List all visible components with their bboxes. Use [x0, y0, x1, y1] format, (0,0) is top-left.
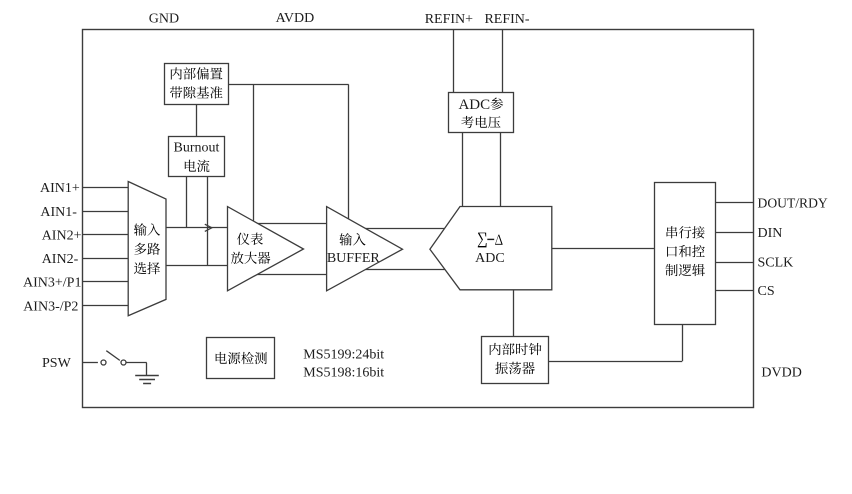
pin label REFIN+	[425, 12, 473, 27]
wire AIN input 4	[83, 258, 129, 260]
pin label GND	[149, 11, 179, 26]
ground	[135, 376, 159, 384]
block power detect 电源检测	[207, 338, 275, 379]
svg-text:REFIN-: REFIN-	[484, 12, 529, 27]
svg-text:AVDD: AVDD	[276, 11, 315, 26]
wire REFIN+ to reference	[453, 30, 455, 92]
wire AIN input 3	[83, 234, 129, 236]
pin label AIN2-	[42, 252, 79, 267]
arrowhead on top rail	[205, 224, 212, 231]
wire AIN input 5	[83, 281, 129, 283]
wire PSW lead-in	[83, 362, 98, 364]
wire AIN input 2	[83, 211, 129, 213]
block serial interface and control logic 串行接口和控制逻辑	[655, 183, 716, 325]
svg-text:PSW: PSW	[42, 356, 72, 371]
wire switch to ground	[126, 363, 147, 376]
svg-text:AIN2+: AIN2+	[42, 228, 82, 243]
op-amp input buffer 输入BUFFER	[327, 207, 403, 291]
wire burnout to bottom rail	[207, 176, 209, 265]
wire mux to amplifier bottom	[166, 265, 230, 267]
wire amplifier to buffer bottom	[250, 274, 330, 276]
pin label PSW	[42, 356, 72, 371]
wire reference to ADC right	[500, 133, 502, 207]
svg-text:REFIN+: REFIN+	[425, 12, 473, 27]
svg-text:SCLK: SCLK	[758, 256, 794, 271]
svg-text:Burnout: Burnout	[174, 141, 220, 156]
wire reference to ADC left	[462, 133, 464, 207]
wire mux to amplifier top	[166, 227, 230, 229]
block input multiplexer 输入多路选择	[128, 182, 166, 316]
wire serial to pin DIN	[716, 232, 754, 234]
svg-text:AIN1+: AIN1+	[40, 181, 80, 196]
block sigma-delta ADC	[430, 207, 552, 290]
wire REFIN- to reference	[502, 30, 504, 92]
wire serial to pin SCLK	[716, 262, 754, 264]
svg-text:MS5199:24bit: MS5199:24bit	[303, 347, 384, 362]
wire amplifier to buffer top	[252, 223, 330, 225]
wire serial to pin DOUT/RDY	[716, 202, 754, 204]
switch PSW lever	[106, 351, 120, 361]
pin label AIN2+	[42, 228, 82, 243]
block ADC reference ADC参考电压	[449, 93, 514, 133]
pin label AVDD	[276, 11, 315, 26]
value label MS5199:24bit	[303, 347, 384, 362]
value label MS5198:16bit	[303, 365, 384, 380]
wire ADC to clock oscillator	[513, 290, 515, 337]
svg-text:AIN1-: AIN1-	[40, 205, 77, 220]
svg-text:ADC: ADC	[458, 97, 490, 113]
pin label AIN3-/P2	[23, 300, 78, 315]
wire bias to buffer	[348, 85, 350, 221]
svg-text:DOUT/RDY: DOUT/RDY	[758, 195, 828, 210]
svg-text:DVDD: DVDD	[761, 366, 801, 381]
wire AIN input 1	[83, 187, 129, 189]
pin label AIN1+	[40, 181, 80, 196]
pin label SCLK	[758, 256, 794, 271]
svg-text:DIN: DIN	[758, 226, 783, 241]
switch PSW contact right	[121, 360, 126, 365]
pin label REFIN-	[484, 12, 529, 27]
block internal clock oscillator 内部时钟振荡器	[482, 337, 549, 384]
wire serial to pin CS	[716, 290, 754, 292]
switch PSW contact left	[101, 360, 106, 365]
chip boundary box	[83, 30, 754, 408]
wire bias to amplifier	[253, 85, 255, 223]
pin label DOUT/RDY	[758, 195, 828, 210]
svg-text:AIN3+/P1: AIN3+/P1	[23, 276, 81, 291]
svg-text:ADC: ADC	[475, 251, 505, 266]
svg-text:AIN3-/P2: AIN3-/P2	[23, 300, 78, 315]
svg-text:AIN2-: AIN2-	[42, 252, 79, 267]
block bandgap reference 内部偏置带隙基准	[165, 64, 229, 105]
svg-text:GND: GND	[149, 11, 179, 26]
wire clock to serial vertical	[682, 325, 684, 361]
pin label DVDD	[761, 366, 801, 381]
pin label AIN1-	[40, 205, 77, 220]
pin label DIN	[758, 226, 783, 241]
wire buffer to ADC bottom	[360, 269, 445, 271]
wire clock to serial horizontal	[548, 361, 682, 363]
wire ADC to serial interface	[552, 248, 655, 250]
svg-text:CS: CS	[758, 284, 775, 299]
svg-text:MS5198:16bit: MS5198:16bit	[303, 365, 384, 380]
block burnout current Burnout电流	[169, 137, 225, 177]
wire burnout to top rail	[186, 176, 188, 228]
op-amp instrumentation amplifier 仪表放大器	[228, 207, 304, 291]
pin label AIN3+/P1	[23, 276, 81, 291]
svg-text:BUFFER: BUFFER	[327, 251, 381, 266]
wire buffer to ADC top	[360, 228, 444, 230]
wire bias output horizontal	[228, 84, 348, 86]
wire AIN input 6	[83, 305, 129, 307]
pin label CS	[758, 284, 775, 299]
wire bias to burnout	[196, 104, 198, 136]
